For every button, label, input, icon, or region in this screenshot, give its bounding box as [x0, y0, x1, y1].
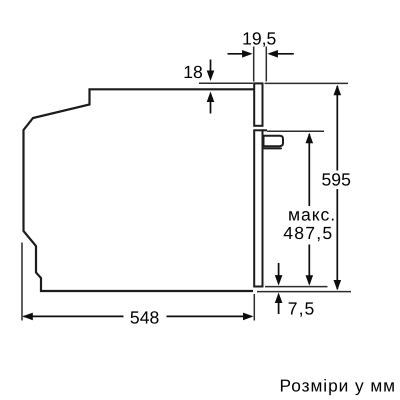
svg-text:7,5: 7,5 — [288, 298, 316, 318]
dimension 595 line — [336, 86, 338, 289]
dimension 18 down arrowhead — [207, 71, 215, 82]
svg-text:19,5: 19,5 — [242, 29, 276, 49]
svg-text:18: 18 — [183, 62, 203, 82]
dimension 18 down arrow stem — [210, 60, 212, 73]
oven body outline — [24, 89, 256, 291]
dimension 19.5 right arrowhead — [267, 50, 278, 58]
door handle bar — [264, 136, 284, 146]
dimension 19.5 left arrowhead — [242, 50, 253, 58]
dimension 18 up arrowhead — [207, 92, 215, 103]
door handle bottom bracket — [264, 147, 281, 149]
extension line 548 right — [253, 294, 255, 321]
extension line body bottom right (for 595 and 7.5) — [257, 291, 351, 293]
svg-text:Розміри у мм: Розміри у мм — [280, 376, 397, 396]
dimension 548 line — [24, 315, 252, 317]
extension line door bottom right (for 487.5 and 7.5) — [265, 286, 328, 288]
dimension 18 up arrow stem — [210, 101, 212, 114]
fascia (front frame upper) — [254, 83, 262, 125]
extension line fascia top left (for 18) — [199, 82, 253, 84]
dimension 487.5 top arrowhead — [306, 133, 314, 144]
extension line 19.5 right — [265, 47, 267, 82]
svg-text:595: 595 — [322, 170, 352, 190]
svg-text:макс.: макс. — [288, 205, 336, 225]
dimension 7.5 up arrowhead — [275, 293, 283, 304]
dimension 487.5 line — [308, 134, 310, 284]
dimension 595 top arrowhead — [334, 85, 342, 96]
svg-text:487,5: 487,5 — [283, 223, 333, 243]
extension line fascia top right (for 595) — [265, 82, 349, 84]
door (front frame lower) — [254, 130, 262, 286]
door handle top bracket — [263, 129, 268, 131]
dimension 19.5 right arrow line — [276, 53, 294, 55]
dimension 548 left arrowhead — [22, 313, 33, 321]
dimension 7.5 down arrow stem — [278, 263, 280, 276]
svg-text:548: 548 — [130, 307, 160, 327]
dimension 548 right arrowhead — [243, 313, 254, 321]
extension line 487.5 top — [267, 130, 324, 132]
dimension 19.5 left arrow line — [228, 53, 245, 55]
dimension 7.5 up arrow stem — [278, 302, 280, 314]
extension line 548 left — [21, 243, 23, 321]
dimension 7.5 down arrowhead — [275, 275, 283, 286]
dimension 487.5 bottom arrowhead — [306, 275, 314, 286]
dimension 595 bottom arrowhead — [334, 280, 342, 291]
extension line 19.5 left — [253, 47, 255, 82]
